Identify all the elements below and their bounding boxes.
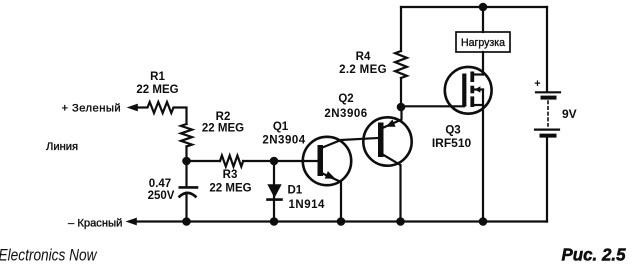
svg-text:Electronics Now: Electronics Now	[0, 246, 98, 265]
svg-text:2N3904: 2N3904	[262, 135, 305, 147]
svg-text:R3: R3	[223, 169, 238, 181]
svg-text:+ Зеленый: + Зеленый	[62, 103, 122, 115]
svg-text:Линия: Линия	[46, 141, 78, 153]
svg-text:22 MEG: 22 MEG	[136, 84, 178, 96]
svg-text:R2: R2	[216, 111, 231, 123]
svg-text:0.47: 0.47	[149, 178, 171, 190]
svg-text:22 MEG: 22 MEG	[209, 183, 251, 195]
svg-text:1N914: 1N914	[289, 199, 325, 211]
svg-text:250V: 250V	[148, 190, 175, 202]
svg-text:IRF510: IRF510	[432, 136, 472, 150]
svg-text:2N3906: 2N3906	[324, 108, 367, 120]
svg-text:Q1: Q1	[273, 121, 289, 133]
svg-text:Рис. 2.5: Рис. 2.5	[562, 245, 626, 265]
svg-text:2.2 MEG: 2.2 MEG	[339, 64, 387, 76]
svg-text:9V: 9V	[562, 107, 577, 121]
svg-text:– Красный: – Красный	[68, 218, 122, 230]
svg-text:D1: D1	[288, 185, 303, 197]
svg-text:R4: R4	[356, 51, 371, 63]
svg-text:+: +	[534, 78, 540, 90]
svg-text:Q3: Q3	[445, 125, 460, 137]
svg-text:Нагрузка: Нагрузка	[461, 37, 505, 49]
svg-text:22 MEG: 22 MEG	[202, 123, 244, 135]
svg-text:Q2: Q2	[338, 93, 353, 105]
svg-text:R1: R1	[150, 71, 165, 83]
